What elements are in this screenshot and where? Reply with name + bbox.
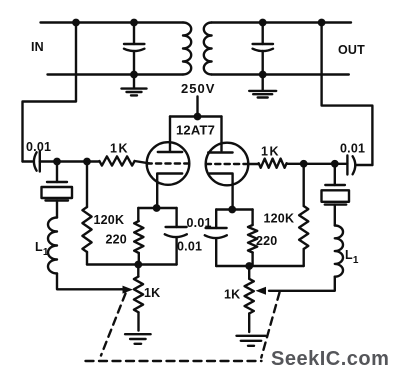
- svg-text:L1: L1: [35, 240, 49, 258]
- junction: node B (grid resistor tap, left): [83, 158, 91, 166]
- ground (under R8): [237, 335, 266, 337]
- capacitor C4 0.01 (left cathode bypass): [165, 208, 187, 265]
- wire: right cathode network top: [216, 208, 252, 210]
- wire: OUT upper line: [212, 21, 351, 23]
- wire: L1 to left wiper arrow: [57, 274, 122, 290]
- wire: R1 to V1a grid: [135, 161, 149, 163]
- V1a grid (dashed): [147, 162, 189, 164]
- resistor R1 1K (left grid): [99, 156, 134, 165]
- wiper arrow (left pot): [121, 286, 133, 294]
- svg-text:1K: 1K: [261, 145, 280, 159]
- svg-text:0.01: 0.01: [177, 240, 202, 254]
- wire: V1b plate lead: [220, 117, 222, 151]
- svg-text:220: 220: [256, 234, 277, 248]
- V1a plate: [158, 151, 182, 153]
- junction: V1a cathode node: [153, 204, 161, 212]
- tube V1 envelope, section A: [147, 142, 190, 185]
- resistor R5 220 (right cathode): [248, 210, 257, 267]
- crystal Y2 (right): [322, 164, 350, 226]
- transformer T1 primary winding: [183, 23, 191, 75]
- svg-text:1K: 1K: [224, 288, 240, 302]
- ground (under C2): [249, 75, 276, 98]
- capacitor C3 0.01 (left coupler): [23, 152, 58, 172]
- junction: node A' (crystal tap, right): [331, 160, 339, 168]
- junction: node B' (grid resistor tap, right): [300, 160, 308, 168]
- mechanical gang link (dashed), left diagonal: [101, 294, 126, 356]
- wire: V1b grid to R6: [248, 163, 259, 165]
- svg-text:0.01: 0.01: [340, 142, 365, 156]
- wire: input tap down to coupling cap C3: [23, 23, 77, 162]
- wire: V1a plate lead: [169, 117, 171, 151]
- resistor R4 120K (right grid leak): [299, 164, 308, 266]
- svg-text:L1: L1: [345, 248, 359, 266]
- capacitor C2 (output tank): [253, 19, 273, 79]
- junction: V1b cathode node: [228, 206, 236, 214]
- junction: node A (crystal tap, left): [53, 158, 61, 166]
- V1a cathode: [157, 174, 182, 186]
- svg-text:IN: IN: [31, 40, 44, 54]
- V1b plate: [208, 151, 232, 153]
- wire: plate rail: [170, 115, 222, 117]
- resistor R3 220 (left cathode): [134, 208, 143, 265]
- junction: output tap on upper line: [318, 19, 326, 27]
- junction: input tap on upper line: [72, 19, 80, 27]
- wire: IN lower line: [48, 73, 184, 75]
- V1b cathode: [209, 174, 232, 186]
- junction: plate rail: [194, 113, 202, 121]
- svg-text:0.01: 0.01: [26, 140, 51, 154]
- wire: output tap down to coupling cap C6: [322, 23, 373, 166]
- wiper arrow (right pot): [256, 287, 267, 295]
- wire: B+ feed to plate rail: [196, 97, 198, 117]
- crystal Y1 (left): [42, 162, 73, 218]
- wire: right bias bottom rail: [216, 265, 304, 267]
- wire: left bias bottom rail: [87, 263, 177, 265]
- svg-text:220: 220: [106, 233, 127, 247]
- svg-text:1K: 1K: [144, 286, 160, 300]
- capacitor C1 (input tank): [124, 19, 144, 79]
- svg-text:120K: 120K: [94, 213, 125, 227]
- transformer T1 secondary winding: [204, 23, 212, 75]
- mechanical gang link (dashed), right diagonal: [261, 293, 279, 358]
- wire: node A to node B: [57, 160, 99, 162]
- wire: OUT lower line: [212, 73, 349, 75]
- potentiometer R8 1K (right): [245, 266, 254, 332]
- svg-text:12AT7: 12AT7: [176, 123, 215, 138]
- resistor R6 1K (right grid): [259, 159, 287, 168]
- wire: V1b cathode lead: [231, 184, 233, 210]
- svg-text:250V: 250V: [181, 81, 215, 96]
- inductor L1 (left): [48, 218, 57, 274]
- capacitor C6 0.01 (right coupler): [335, 156, 373, 175]
- wire: L2 to right wiper arrow: [269, 277, 335, 291]
- wire: left cathode network top: [138, 207, 176, 209]
- svg-text:OUT: OUT: [338, 43, 365, 57]
- svg-text:SeekIC.com: SeekIC.com: [271, 348, 389, 370]
- inductor L2 (right, marked L1): [335, 226, 343, 277]
- wire: IN upper line: [41, 21, 184, 23]
- tube V1 envelope, section B: [206, 143, 249, 186]
- ground (under C1): [122, 75, 147, 96]
- wire: R6 to node B': [287, 163, 335, 165]
- capacitor C5 0.01 (right cathode bypass): [205, 210, 227, 267]
- potentiometer R7 1K (left): [134, 265, 143, 331]
- svg-text:1K: 1K: [110, 142, 129, 156]
- svg-text:120K: 120K: [264, 212, 295, 226]
- junction: left pot tap: [134, 261, 142, 269]
- mechanical gang link (dashed), bottom run: [86, 360, 262, 362]
- V1b grid (dashed): [206, 163, 248, 165]
- junction: right pot tap: [245, 262, 253, 270]
- wire: V1a cathode lead: [156, 184, 158, 208]
- resistor R2 120K (left grid leak): [82, 162, 91, 265]
- ground (under R7): [125, 333, 151, 335]
